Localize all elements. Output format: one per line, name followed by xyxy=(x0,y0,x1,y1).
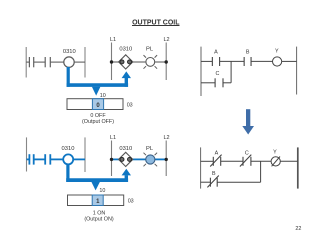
bottom-left coil 0310 (energized, blue) xyxy=(63,154,73,164)
contact C (NC) xyxy=(240,155,251,167)
svg-text:PL: PL xyxy=(146,146,154,152)
top-middle L2 rail xyxy=(165,43,167,81)
PL rays (bottom) xyxy=(144,153,158,167)
branch vertical (bottom-right ladder) xyxy=(260,161,262,182)
blue trace: up stem to module (bottom) xyxy=(125,175,128,182)
svg-text:L2: L2 xyxy=(163,135,169,141)
svg-text:L1: L1 xyxy=(110,37,116,43)
junction dot L1 (top) xyxy=(110,60,113,63)
big transition arrow xyxy=(242,109,254,134)
register box (top) xyxy=(67,99,123,110)
top-left ladder: right rail xyxy=(84,47,86,78)
bottom-left contact 1 (closed, blue) xyxy=(29,154,33,164)
blue trace: horizontal run (bottom) xyxy=(66,178,128,182)
svg-text:0310: 0310 xyxy=(119,47,132,53)
top-left ladder: left rail xyxy=(25,47,27,78)
top-left ladder: wire segments rung xyxy=(26,61,85,63)
top-left contact 1 (examine) xyxy=(29,57,33,67)
relay ladder top-right: left rail xyxy=(200,47,202,96)
svg-text:Y: Y xyxy=(273,150,277,156)
svg-text:B: B xyxy=(212,171,216,177)
svg-text:PL: PL xyxy=(146,47,154,53)
top-left contact 2 xyxy=(45,57,50,67)
svg-text:03: 03 xyxy=(127,102,133,108)
blue arrowhead down into register (bottom) xyxy=(91,182,100,191)
coil Y (bottom, slashed) xyxy=(271,157,280,167)
blue arrowhead up into module (bottom) xyxy=(122,169,131,176)
pilot light PL (bottom, on) xyxy=(146,155,155,164)
svg-text:10: 10 xyxy=(99,188,105,194)
relay ladder top-right: right rail xyxy=(296,47,298,95)
blue trace: coil stem down (bottom) xyxy=(66,164,69,182)
contact A (NC) xyxy=(210,155,221,167)
junction dot L1 (bottom) xyxy=(110,158,113,161)
contact B (NC) xyxy=(207,176,218,188)
output module diamond 0310 (top) xyxy=(119,55,133,69)
svg-text:0310: 0310 xyxy=(119,146,132,152)
svg-text:B: B xyxy=(246,49,250,55)
relay ladder bottom-right: right rail xyxy=(297,147,299,188)
rung 2 wire (bottom-right ladder) xyxy=(201,181,261,183)
module terminal circles (bottom) xyxy=(120,157,132,161)
pilot light PL (top, off) xyxy=(146,58,155,67)
junction dot L2 (bottom) xyxy=(165,158,168,161)
bottom-middle L1 rail xyxy=(111,141,113,177)
blue trace: horizontal run (top) xyxy=(67,83,129,87)
title OUTPUT COIL xyxy=(132,19,180,26)
svg-text:A: A xyxy=(215,151,219,157)
svg-text:03: 03 xyxy=(128,199,134,205)
module terminal circles (top) xyxy=(120,60,132,64)
svg-text:1 ON: 1 ON xyxy=(93,210,106,216)
bottom-left ladder: right rail xyxy=(84,137,86,172)
PL rays (top) xyxy=(144,55,158,69)
top-left coil 0310 xyxy=(64,57,74,67)
register highlighted cell 0 (top) xyxy=(92,99,103,110)
blue arrowhead down into register (top) xyxy=(92,87,101,96)
relay ladder top-right: rung 1 wire xyxy=(201,60,297,62)
svg-text:(Output ON): (Output ON) xyxy=(84,217,114,223)
svg-text:A: A xyxy=(214,49,218,55)
output module diamond 0310 (bottom) xyxy=(119,152,133,166)
top-middle L1 rail xyxy=(111,43,113,81)
bottom-left ladder: left rail xyxy=(26,137,28,171)
coil Y (top) xyxy=(273,57,282,66)
svg-text:10: 10 xyxy=(100,93,106,99)
junction dot L2 (top) xyxy=(165,60,168,63)
register box (bottom) xyxy=(68,195,124,206)
contact A (NO) xyxy=(212,57,219,66)
svg-text:(Output OFF): (Output OFF) xyxy=(82,119,114,125)
svg-text:C: C xyxy=(216,71,220,77)
bottom-middle L2 rail xyxy=(165,141,167,177)
blue arrowhead up into module (top) xyxy=(122,71,131,78)
svg-text:L2: L2 xyxy=(163,37,169,43)
svg-text:Y: Y xyxy=(275,49,279,55)
svg-text:0310: 0310 xyxy=(62,146,75,152)
blue trace: up stem to module (top) xyxy=(125,78,128,87)
bottom-left contact 2 (closed, blue) xyxy=(45,154,50,164)
svg-text:22: 22 xyxy=(295,226,301,232)
svg-text:L1: L1 xyxy=(110,135,116,141)
contact C (NO) xyxy=(215,78,223,87)
rung 2 wire (top-right ladder) xyxy=(201,82,231,84)
blue trace: coil stem down (top) xyxy=(67,67,70,87)
bottom-left energized wire (blue) xyxy=(27,158,86,160)
svg-text:0 OFF: 0 OFF xyxy=(90,113,106,119)
relay ladder bottom-right: left rail xyxy=(200,147,202,188)
top-middle wire segments xyxy=(112,61,167,63)
svg-text:C: C xyxy=(245,151,249,157)
relay ladder bottom-right: rung 1 wire xyxy=(201,160,298,162)
branch vertical (top-right ladder) xyxy=(230,61,232,82)
contact B (NO) xyxy=(244,57,251,66)
svg-text:0310: 0310 xyxy=(63,49,76,55)
register highlighted cell 1 (bottom) xyxy=(92,195,103,206)
bottom-middle energized wire (blue) xyxy=(112,158,167,160)
